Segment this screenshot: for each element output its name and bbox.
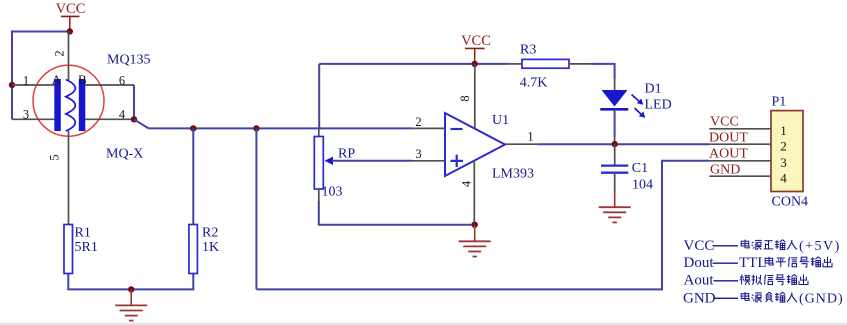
svg-text:GND: GND [710,162,740,177]
pin 3 of P1 [709,160,771,162]
svg-text:8: 8 [458,95,472,101]
legend line 3: Aout = analog signal output [684,273,809,289]
junction node U1 gnd [472,222,478,228]
svg-text:(GND): (GND) [799,291,844,306]
svg-text:R2: R2 [202,226,218,241]
svg-text:VCC: VCC [684,238,715,254]
pin 6 of MQ135 [85,84,134,86]
svg-text:2: 2 [52,50,66,56]
svg-text:D1: D1 [645,82,662,97]
svg-text:3: 3 [415,147,421,161]
resistor R1 [64,225,73,274]
pin 4 of MQ135 [85,118,134,120]
pin 4 of U1 [473,161,475,225]
wire diagonal from pin4 [134,119,149,128]
svg-text:4.7K: 4.7K [520,76,548,91]
wire left rail down [11,31,13,120]
svg-text:VCC: VCC [461,33,491,49]
junction node DOUT/C1 [612,141,618,147]
svg-text:P1: P1 [772,95,787,110]
wire top horizontal to R3 [319,63,508,65]
ground (C1) [614,191,616,207]
junction node pin1 rail [9,82,15,88]
wire R3 to LED corner [592,64,615,79]
wire AOUT drop [255,128,257,289]
svg-text:VCC: VCC [710,115,739,130]
junction node ground tap [128,286,134,292]
svg-text:1: 1 [780,123,787,138]
svg-text:1: 1 [527,130,533,144]
svg-text:AOUT: AOUT [709,146,748,161]
svg-text:VCC: VCC [56,1,86,17]
connector P1 CON4 [771,111,803,192]
svg-text:4: 4 [780,170,787,185]
capacitor C1 104 [601,144,628,192]
pin 8 of U1 [474,64,476,129]
junction node VCC comparator [472,61,478,67]
svg-text:(+5V): (+5V) [799,239,841,254]
wire AOUT to connector [661,160,709,162]
junction node pin4 [131,116,137,122]
pin 1 of P1 [709,128,771,130]
svg-text:4: 4 [459,180,473,187]
legend line 1: VCC = power positive input +5V [684,238,841,254]
wire R1 drop [67,225,69,290]
junction node AOUT tap [253,125,259,131]
svg-text:103: 103 [322,185,343,200]
svg-text:TTL: TTL [739,255,767,271]
svg-text:CON4: CON4 [772,195,809,210]
op-amp U1 LM393 [445,113,505,176]
svg-text:1K: 1K [202,240,219,255]
svg-text:R1: R1 [75,226,91,241]
sensor MQ135 (U: MQ-X) [33,65,104,136]
pin 1 of U1 (output) [505,143,538,145]
svg-text:Dout: Dout [684,255,715,271]
svg-text:3: 3 [23,108,29,122]
pin 5 of MQ135 [68,131,70,225]
decorative bottom hairline (not labelled component) [0,323,847,325]
svg-text:GND: GND [683,290,716,306]
potentiometer RP [314,128,412,202]
svg-text:C1: C1 [632,161,648,176]
wire R2 drop [192,128,194,289]
svg-text:3: 3 [780,155,787,170]
power VCC (comparator) [461,33,491,64]
ground (op-amp) [474,225,476,242]
svg-text:104: 104 [632,178,653,193]
svg-text:4: 4 [119,108,126,122]
ground (bottom-left) [130,289,132,305]
wire RP bottom to gnd node [319,201,475,225]
wire AOUT up [661,161,663,291]
pin 3 of MQ135 [12,118,55,120]
svg-text:DOUT: DOUT [709,130,748,145]
wire RP rail vertical [318,64,320,128]
legend line 4: GND = power negative input GND [683,290,844,306]
wire VCC to R3 handled above; resistor R3 [509,63,523,65]
LED D1 [600,78,645,144]
svg-text:R3: R3 [520,43,536,58]
svg-text:6: 6 [119,74,125,88]
power VCC (top-left) [56,1,86,32]
wire VCC to left rail [12,31,70,33]
svg-text:2: 2 [415,115,421,129]
junction node at VCC drop [67,28,73,34]
legend line 2: Dout = TTL level signal output [684,255,833,271]
svg-text:LED: LED [645,98,672,113]
svg-text:U1: U1 [492,113,509,128]
svg-text:MQ-X: MQ-X [106,147,143,162]
svg-text:LM393: LM393 [492,167,534,182]
svg-text:Aout: Aout [684,273,715,289]
svg-text:RP: RP [338,147,355,162]
svg-text:MQ135: MQ135 [107,53,151,68]
wire pin6 down to pin4 [133,85,135,119]
svg-text:1: 1 [23,74,29,88]
pin 2 of MQ135 [68,32,70,81]
wire main horizontal to comparator [149,127,413,129]
svg-text:5R1: 5R1 [75,240,98,255]
svg-text:5: 5 [47,154,61,160]
wire AOUT rail bottom [256,288,662,290]
resistor R2 [189,225,198,274]
wire ground rail [67,288,194,290]
junction node R2 tap [190,125,196,131]
wire U1 output to connector (DOUT) [538,143,709,145]
pin 2 of P1 [709,143,771,145]
svg-text:2: 2 [780,138,787,153]
pin 2 of U1 [412,127,445,129]
pin 1 of MQ135 [12,84,55,86]
pin 3 of U1 [412,160,445,162]
pin 4 of P1 [709,175,771,177]
